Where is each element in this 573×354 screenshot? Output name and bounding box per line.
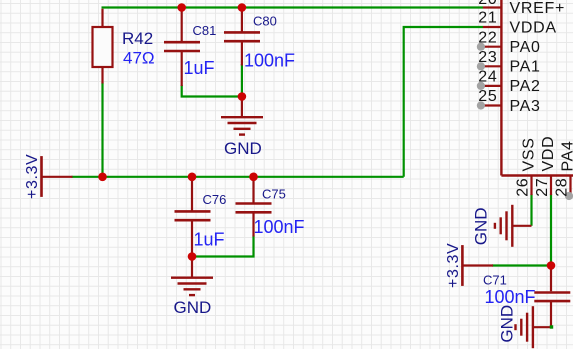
junction at C80 / top rail bbox=[238, 3, 247, 12]
svg-text:VDD: VDD bbox=[540, 136, 557, 172]
svg-text:27: 27 bbox=[534, 178, 551, 197]
capacitor C75 bbox=[236, 177, 272, 237]
junction at C75 / mid rail bbox=[249, 173, 258, 182]
wire: +3.3V rail top horizontal bbox=[102, 6, 484, 8]
svg-text:C80: C80 bbox=[253, 14, 277, 29]
pin 28 unconnected circle bbox=[565, 192, 573, 200]
pin 25 unconnected circle bbox=[477, 101, 485, 109]
ground symbol below C80 bbox=[221, 97, 263, 135]
junction at C76 / mid rail bbox=[188, 173, 197, 182]
junction at C81 / top rail bbox=[177, 3, 186, 12]
svg-text:PA4: PA4 bbox=[560, 140, 573, 171]
pin 20 VREF+ stub bbox=[483, 6, 502, 8]
junction at C76 ground node bbox=[188, 252, 197, 261]
resistor R42 bbox=[93, 9, 113, 84]
ground symbol below C76 bbox=[171, 257, 213, 296]
svg-text:100nF: 100nF bbox=[485, 287, 536, 307]
wire: C75 bottom to C76 junction bbox=[193, 236, 254, 257]
wire: +3.3V mid rail horizontal bbox=[72, 176, 404, 178]
IC U? body outline bbox=[501, 0, 573, 176]
wire: C80 bottom vertical bbox=[241, 64, 243, 97]
svg-text:1uF: 1uF bbox=[184, 58, 215, 78]
pin 25 PA3 stub bbox=[483, 104, 502, 106]
capacitor C80 bbox=[224, 8, 260, 66]
svg-text:VSS: VSS bbox=[521, 137, 538, 171]
svg-text:22: 22 bbox=[478, 29, 497, 46]
wire: pin27 VDD vertical bbox=[550, 194, 552, 266]
svg-text:C75: C75 bbox=[262, 187, 286, 202]
pin 22 PA0 stub bbox=[483, 46, 502, 48]
wire: +3.3V to VDD junction bbox=[492, 264, 551, 266]
svg-text:47Ω: 47Ω bbox=[123, 48, 155, 67]
pin 22 unconnected circle bbox=[477, 43, 485, 51]
wire: vertical from resistor bottom to mid rail bbox=[101, 83, 103, 177]
supply +3.3V right bbox=[462, 245, 493, 286]
svg-text:PA3: PA3 bbox=[510, 98, 541, 115]
pin 23 unconnected circle bbox=[477, 62, 485, 70]
svg-text:25: 25 bbox=[478, 88, 497, 105]
capacitor C76 bbox=[175, 177, 211, 257]
svg-text:GND: GND bbox=[498, 305, 517, 343]
wire: green node dot at C71/GND corner bbox=[550, 325, 553, 328]
ground symbol below C71 (rotated) bbox=[516, 306, 552, 348]
pin 24 PA2 stub bbox=[483, 85, 502, 87]
ground symbol at pin 26 (rotated) bbox=[495, 205, 532, 247]
svg-text:+3.3V: +3.3V bbox=[445, 243, 462, 288]
pin 28 PA4 stub bbox=[569, 176, 571, 196]
wire: stub C71 to GND corner bbox=[550, 325, 552, 329]
svg-text:PA1: PA1 bbox=[510, 59, 541, 76]
junction at VDD / C71 node bbox=[547, 261, 556, 270]
pin 27 VDD stub bbox=[550, 176, 552, 196]
svg-text:20: 20 bbox=[478, 0, 497, 8]
svg-text:100nF: 100nF bbox=[244, 51, 295, 71]
junction at R42 / mid rail bbox=[98, 173, 107, 182]
svg-text:21: 21 bbox=[478, 10, 497, 27]
svg-text:24: 24 bbox=[478, 69, 497, 86]
svg-text:C76: C76 bbox=[203, 192, 227, 207]
svg-text:VREF+: VREF+ bbox=[510, 0, 566, 17]
svg-text:C71: C71 bbox=[483, 273, 507, 288]
svg-text:PA0: PA0 bbox=[510, 39, 541, 56]
capacitor C71 bbox=[534, 266, 570, 328]
svg-text:GND: GND bbox=[224, 139, 262, 158]
svg-text:GND: GND bbox=[174, 298, 212, 317]
capacitor C81 bbox=[164, 8, 200, 87]
pin 21 VDDA stub bbox=[483, 26, 502, 28]
svg-text:1uF: 1uF bbox=[194, 230, 225, 250]
pin 26 VSS stub bbox=[530, 176, 532, 196]
pin 23 PA1 stub bbox=[483, 65, 502, 67]
pin 24 unconnected circle bbox=[477, 82, 485, 90]
wire: riser from mid rail to VDDA bbox=[404, 27, 483, 177]
junction at C81-C80 ground node bbox=[238, 92, 247, 101]
svg-text:PA2: PA2 bbox=[510, 78, 541, 95]
svg-text:+3.3V: +3.3V bbox=[24, 154, 41, 199]
svg-text:GND: GND bbox=[472, 207, 491, 245]
svg-text:100nF: 100nF bbox=[254, 217, 305, 237]
supply +3.3V left bbox=[42, 156, 73, 197]
wire: C81 bottom to C80 junction bbox=[182, 85, 242, 97]
svg-text:26: 26 bbox=[515, 178, 532, 197]
svg-text:28: 28 bbox=[554, 178, 571, 197]
svg-text:R42: R42 bbox=[122, 29, 153, 48]
svg-text:23: 23 bbox=[478, 49, 497, 66]
wire: pin26 VSS to GND bbox=[530, 194, 532, 226]
svg-text:C81: C81 bbox=[193, 23, 217, 38]
svg-text:VDDA: VDDA bbox=[510, 19, 557, 36]
